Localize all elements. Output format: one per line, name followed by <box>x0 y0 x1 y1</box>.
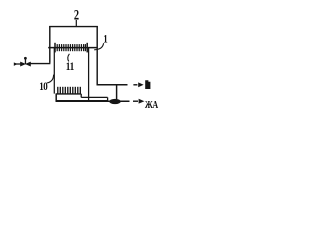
leader for label 2 <box>75 20 77 27</box>
pump P1 <box>109 99 121 104</box>
right downpipe <box>88 48 90 100</box>
vessel top wall <box>49 26 98 28</box>
tray outline <box>56 93 109 101</box>
leader for label 11 <box>68 54 70 62</box>
svg-text:ЖА: ЖА <box>145 99 159 110</box>
wire junction to pump <box>116 85 118 100</box>
heater bar fins <box>57 44 85 51</box>
bottom dashed arrow <box>133 99 144 104</box>
top dashed arrow <box>133 82 143 87</box>
product block symbol <box>145 80 150 89</box>
feed stub wire <box>14 63 21 65</box>
leader for label 10 <box>47 75 54 83</box>
heater bar right end cap <box>86 43 88 53</box>
svg-text:10: 10 <box>39 81 47 93</box>
valve V1 <box>20 57 31 67</box>
wire valve to vessel <box>31 63 51 65</box>
heater bar center line <box>48 47 97 49</box>
left downpipe <box>53 48 55 94</box>
wire tray to pump <box>108 100 130 102</box>
vessel right wall <box>96 26 98 85</box>
feed arrowhead <box>14 62 18 66</box>
heater bar left end cap <box>54 43 56 53</box>
leader for label 1 <box>94 43 103 50</box>
top outlet wire <box>97 84 128 86</box>
vessel left wall <box>49 26 51 63</box>
svg-text:11: 11 <box>66 60 74 73</box>
tray comb fins <box>58 87 81 94</box>
